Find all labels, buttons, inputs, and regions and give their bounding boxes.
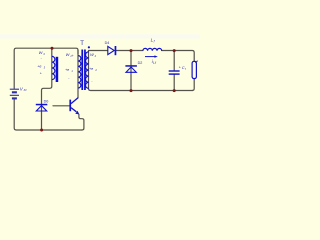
wire: emitter jog down to bottom rail right end [79, 114, 84, 130]
polarity dot W2 [88, 46, 90, 48]
node junction Cf bottom [173, 89, 176, 92]
wire: D2 branch vertical [130, 51, 132, 91]
svg-text:+: + [72, 54, 74, 58]
wire: W3 branch from top-rail junction down, jog left, down through D0 to bottom rail [42, 48, 52, 130]
wire: top rail primary + left side down to battery [14, 48, 78, 88]
svg-text:+e: +e [37, 65, 41, 69]
wire: Cf branch lower [173, 75, 175, 91]
node junction D0 bottom [40, 129, 43, 132]
wire: D4 cathode to Lf [116, 50, 142, 52]
svg-text:D0: D0 [44, 99, 49, 103]
svg-text:+e: +e [65, 68, 69, 72]
svg-text:+: + [40, 72, 42, 76]
svg-text:+: + [179, 66, 181, 70]
diode D0 [36, 104, 48, 111]
core bar (W3 side) [56, 57, 59, 82]
white band [0, 34, 200, 38]
wire: Lf to top-right corner down to load [162, 51, 195, 62]
wire: W2 vertical and secondary bottom rail [89, 52, 193, 91]
transformer core bars [81, 50, 83, 91]
transistor Q [69, 98, 79, 115]
diode D2 [125, 65, 136, 72]
wire: load bottom to bottom-right corner [192, 79, 194, 91]
capacitor Cf [169, 70, 180, 75]
node junction Lf/Cf [173, 49, 176, 52]
inductor Lf [143, 48, 162, 50]
svg-text:T: T [80, 41, 84, 47]
winding W1 coil [78, 56, 81, 88]
tick at load top [195, 61, 197, 63]
wire: base stub [53, 105, 69, 107]
svg-text:+e: +e [89, 67, 93, 71]
wire: Cf branch upper [173, 51, 175, 71]
load resistor RL [192, 61, 196, 78]
node junction top rail (W3 tap) [51, 47, 54, 50]
node junction D2 bottom [130, 89, 133, 92]
wire: W2 top to D4 anode [89, 50, 108, 52]
winding W3 coil [52, 56, 55, 79]
current arrow iLf [145, 55, 158, 57]
diode D4 [108, 46, 116, 55]
svg-text:D2: D2 [138, 61, 143, 65]
wire: W1 vertical (top rail corner down to collector) [77, 50, 79, 98]
battery VIN [10, 89, 19, 98]
svg-text:D4: D4 [105, 41, 110, 45]
node junction D4/D2/Lf [130, 49, 133, 52]
winding W2 coil [86, 52, 89, 89]
wire: battery bottom to bottom-left corner and bottom rail [14, 100, 82, 130]
